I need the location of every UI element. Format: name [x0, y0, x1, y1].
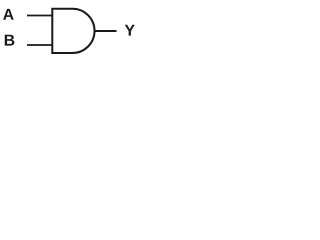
- node A (input label): [3, 9, 14, 20]
- node Y (output label): [125, 25, 135, 36]
- wire input A: [27, 15, 53, 17]
- wire output: [94, 30, 117, 32]
- node B (input label): [5, 35, 15, 46]
- wire input B: [27, 44, 53, 46]
- AND gate U1: [52, 9, 94, 53]
